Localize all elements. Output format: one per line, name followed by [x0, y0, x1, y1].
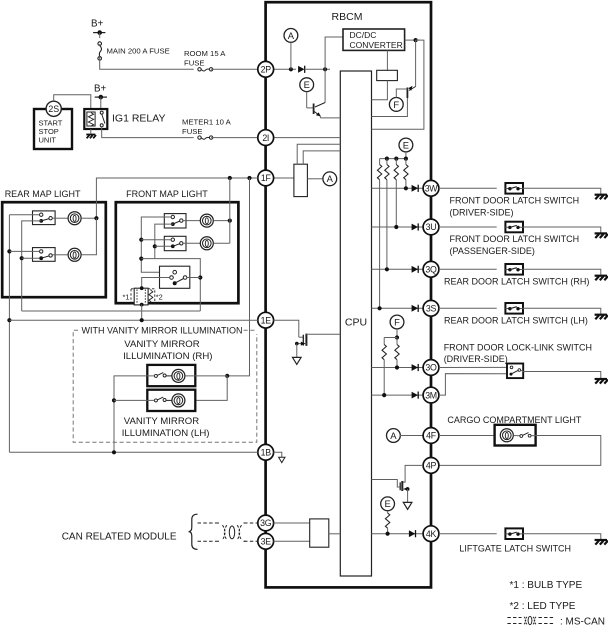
wire pull-up bus: [384, 337, 397, 339]
net label circle F above pull-ups: [390, 315, 404, 329]
svg-text:VANITY MIRROR: VANITY MIRROR: [124, 339, 199, 350]
node 3S pull-up junction: [378, 306, 382, 310]
lamp CARGO COMPARTMENT LIGHT box: [495, 425, 536, 446]
svg-text:REAR DOOR LATCH SWITCH (RH): REAR DOOR LATCH SWITCH (RH): [444, 277, 589, 287]
ground (4K): [595, 540, 608, 545]
REAR MAP LIGHT box: [2, 202, 106, 297]
node V1 switchB: [139, 238, 143, 242]
wire diode to DC/DC junction: [305, 68, 330, 70]
pin 4P: [423, 458, 439, 474]
LED *2 (zigzag): [149, 289, 153, 302]
diode D-3O: [412, 364, 419, 371]
bulb vanity LH: [172, 394, 185, 407]
MOSFET Q3 (cargo driver): [401, 481, 403, 491]
DC/DC CONVERTER box: [343, 29, 405, 50]
pin 4F: [423, 428, 439, 444]
pin 3G: [258, 515, 274, 531]
diode D-3M: [412, 392, 419, 399]
IG1 relay coil: [87, 112, 95, 126]
relay IG1 RELAY box: [84, 109, 107, 129]
svg-text:ILLUMINATION (RH): ILLUMINATION (RH): [123, 351, 212, 362]
wire 3U to switch: [439, 226, 497, 228]
pin 1F: [258, 170, 274, 186]
resistor R6: [396, 338, 398, 345]
wire cargo light to 4P return: [439, 436, 601, 466]
resistor R3 of pull-up bank: [395, 159, 397, 165]
wire 1E to MOSFET Q4 gate: [274, 320, 299, 337]
pin 3U: [423, 219, 439, 235]
node lamp return on 1E rail: [140, 318, 144, 322]
wire rail1 to rear switch 1: [9, 214, 39, 216]
svg-text:1F: 1F: [261, 173, 272, 183]
wire 1E rail: [9, 319, 257, 321]
RBCM module box: [266, 2, 431, 587]
wire switch to ground (3U): [523, 227, 601, 233]
svg-text:3W: 3W: [425, 184, 439, 194]
wire rail2 to front map return: [22, 310, 201, 312]
svg-text:3O: 3O: [425, 363, 437, 373]
wire R2 to 3Q row: [386, 180, 388, 270]
ground (3O): [595, 379, 608, 384]
diode on 2P feed: [298, 66, 305, 73]
dashed box bulb/LED: [131, 289, 155, 304]
net label circle A at 1F: [323, 172, 337, 186]
bulb rear map 1: [52, 217, 68, 219]
node V2 switchB: [153, 244, 157, 248]
wire 3M to lock-link switch: [439, 374, 510, 396]
wire 3G to CAN transceiver: [274, 522, 310, 524]
svg-text:FUSE: FUSE: [182, 127, 203, 136]
svg-text:A: A: [390, 430, 397, 441]
node bus 3: [404, 157, 408, 161]
svg-text:1B: 1B: [261, 448, 272, 458]
resistor R2 of pull-up bank: [386, 159, 388, 165]
pin 4K: [423, 526, 439, 542]
pin 3E: [258, 533, 274, 549]
switch vanity RH: [154, 374, 157, 377]
node bus 1: [385, 157, 389, 161]
pin 3M: [423, 387, 439, 403]
svg-text:FRONT MAP LIGHT: FRONT MAP LIGHT: [126, 189, 208, 199]
wire DC/DC right to rail: [405, 39, 420, 41]
wire 1F to resistor block: [274, 177, 294, 179]
wire CPU to pin 4K: [372, 533, 424, 535]
switch FRONT DOOR LATCH SWITCH: [505, 222, 523, 233]
ground (3S): [595, 315, 608, 320]
wire bulbB to riser: [214, 242, 230, 244]
svg-text:FRONT DOOR LATCH SWITCH: FRONT DOOR LATCH SWITCH: [450, 196, 580, 206]
svg-text:ROOM 15 A: ROOM 15 A: [184, 49, 226, 58]
switch LIFTGATE LATCH SWITCH: [505, 528, 523, 539]
pin 3S: [423, 300, 439, 316]
pin 1B: [258, 444, 274, 460]
diode D-4K: [409, 530, 416, 537]
connector 2S on START STOP UNIT: [46, 101, 61, 116]
svg-text:CONVERTER: CONVERTER: [350, 40, 403, 50]
wire R3 to 3U row: [395, 180, 397, 227]
svg-text:: MS-CAN: : MS-CAN: [560, 617, 605, 628]
vanity LH box: [147, 390, 195, 411]
svg-text:F: F: [393, 99, 399, 110]
node DC/DC feed: [323, 67, 327, 71]
wire DC/DC output rail down to CPU: [372, 40, 424, 129]
CAN transceiver box: [310, 519, 329, 547]
switch REAR DOOR LATCH SWITCH (RH): [505, 264, 523, 275]
svg-text:*2: *2: [156, 293, 163, 302]
svg-text:REAR MAP LIGHT: REAR MAP LIGHT: [5, 189, 81, 199]
svg-text:(DRIVER-SIDE): (DRIVER-SIDE): [444, 354, 508, 364]
wire LH box return: [114, 399, 154, 401]
dashed box WITH VANITY MIRROR ILLUMINATION: [73, 330, 257, 442]
node A (2P branch): [289, 67, 293, 71]
svg-text:A: A: [288, 30, 295, 41]
svg-text:IG1 RELAY: IG1 RELAY: [112, 113, 166, 125]
switch rear map 1: [33, 211, 56, 225]
svg-text:4P: 4P: [426, 461, 437, 471]
switch vanity LH: [154, 399, 157, 402]
svg-text:LIFTGATE LATCH SWITCH: LIFTGATE LATCH SWITCH: [459, 544, 571, 554]
switch front map B: [164, 236, 186, 250]
node vanity LH return: [112, 398, 116, 402]
svg-text:UNIT: UNIT: [39, 136, 57, 145]
resistor block at 1F: [294, 164, 308, 196]
wire B+ to MAIN fuse: [99, 33, 101, 38]
legend MS-CAN symbol: [507, 618, 521, 624]
Q4 source with arrow: [297, 343, 307, 345]
ground (3Q): [595, 276, 608, 281]
switch in cargo light: [513, 435, 520, 437]
wire rail1 to rear switch 2: [9, 250, 39, 252]
ground under IG1 relay coil: [90, 129, 92, 134]
wire E to resistor bus: [405, 152, 407, 159]
wire rail1 riser: [8, 215, 10, 453]
svg-text:3S: 3S: [426, 304, 437, 314]
svg-text:E: E: [384, 498, 390, 509]
wire CPU to pin 3S: [372, 307, 424, 309]
svg-text:MAIN 200 A FUSE: MAIN 200 A FUSE: [107, 47, 170, 56]
svg-text:METER1 10 A: METER1 10 A: [182, 118, 232, 127]
svg-text:WITH VANITY MIRROR ILLUMINATIO: WITH VANITY MIRROR ILLUMINATION: [82, 325, 243, 335]
svg-text:A: A: [327, 173, 334, 184]
net label circle E at 2P transistor: [300, 78, 314, 92]
resistor R4 of pull-up bank: [405, 159, 407, 165]
fuse ROOM 15 A FUSE: [198, 68, 213, 71]
wire vanity LH drop: [185, 376, 227, 401]
ground (3U): [595, 233, 608, 238]
svg-text:ILLUMINATION (LH): ILLUMINATION (LH): [122, 428, 210, 439]
wire bulb1 to 1F drop: [81, 217, 96, 219]
svg-text:*1 : BULB TYPE: *1 : BULB TYPE: [510, 580, 583, 591]
transistor Q1 (E): [306, 92, 308, 108]
svg-text:VANITY MIRROR: VANITY MIRROR: [124, 416, 199, 427]
node V1 return: [139, 257, 143, 261]
svg-text:2P: 2P: [261, 65, 272, 75]
wire 3S to switch: [439, 307, 497, 309]
svg-text:CARGO COMPARTMENT LIGHT: CARGO COMPARTMENT LIGHT: [447, 415, 582, 425]
transformer block under DC/DC: [386, 50, 388, 70]
wire 4K to liftgate switch: [439, 533, 497, 535]
wire METER1 fuse to pin 2I: [211, 137, 258, 139]
IG1 relay switch contacts: [100, 111, 103, 114]
wire CPU to pin 3O: [372, 367, 424, 369]
net label circle A at 2P: [284, 29, 298, 43]
brace for CAN module: [189, 514, 198, 549]
svg-text:3Q: 3Q: [425, 265, 437, 275]
wire 3Q to switch: [439, 268, 497, 270]
switch REAR DOOR LATCH SWITCH (LH): [505, 303, 523, 314]
wire bulb2 to return riser: [81, 218, 96, 255]
switch FRONT DOOR LATCH SWITCH: [505, 183, 523, 194]
bulb in cargo light: [500, 429, 513, 442]
diode D-3W: [412, 185, 419, 192]
wire lamp return to 1E rail: [141, 305, 143, 321]
node F pull-up: [395, 335, 399, 339]
wire CPU to pin 3M: [372, 394, 424, 396]
ground (3W): [595, 195, 608, 200]
fuse MAIN 200 A FUSE: [98, 42, 102, 60]
node lamp top2: [140, 286, 144, 290]
wire CPU to pin 3W: [372, 187, 424, 189]
wire R1 to 3S row: [379, 180, 381, 309]
svg-text:B+: B+: [91, 19, 104, 30]
svg-text:*2 : LED TYPE: *2 : LED TYPE: [510, 601, 576, 612]
svg-text:2I: 2I: [262, 133, 269, 143]
wire MAIN fuse to ROOM fuse: [100, 58, 194, 70]
svg-text:CAN RELATED MODULE: CAN RELATED MODULE: [62, 532, 177, 543]
wire IG1 relay to METER1 fuse: [102, 127, 194, 138]
node 3U pull-up junction: [394, 225, 398, 229]
wire 1B to ground arrow: [274, 452, 282, 457]
node vanity feed on 1F rail: [247, 176, 251, 180]
switch front map A: [164, 214, 186, 228]
diode D-3S: [412, 305, 419, 312]
net label circle F at Q2: [389, 98, 403, 112]
net label circle A at 4F: [387, 429, 401, 443]
switch FRONT DOOR LOCK-LINK SWITCH: [507, 364, 523, 379]
node front bulb A drop on 1F rail: [228, 176, 232, 180]
pin 3O: [423, 360, 439, 376]
node rail1 1E junction: [7, 318, 11, 322]
FRONT MAP LIGHT box: [116, 202, 239, 303]
node vanity on 1B rail: [112, 450, 116, 454]
ground arrow at Q4: [293, 357, 302, 364]
wire 1B rail: [9, 451, 257, 453]
svg-text:3U: 3U: [426, 222, 437, 232]
wire B+ to IG1 relay: [100, 97, 102, 109]
svg-text:2S: 2S: [48, 104, 59, 114]
node rail1 switch2 feed: [7, 249, 11, 253]
resistor bus: [380, 158, 406, 160]
Q4 drain to CPU: [306, 333, 340, 335]
wire 2P to junction: [274, 68, 297, 70]
wire lock-link switch to ground: [521, 370, 524, 371]
node rail2 switch2: [20, 256, 24, 260]
node DC/DC output: [414, 38, 418, 42]
wire 2S to IG1 relay coil: [54, 95, 91, 109]
svg-text:FRONT DOOR LOCK-LINK SWITCH: FRONT DOOR LOCK-LINK SWITCH: [444, 343, 592, 353]
Q3 source with arrow: [403, 488, 408, 490]
wire 1F rail to map lights: [96, 178, 257, 218]
svg-text:DC/DC: DC/DC: [350, 30, 377, 40]
svg-text:F: F: [394, 316, 400, 327]
switch rear map 2: [33, 248, 56, 262]
wire rail2 from rear switch 1: [22, 221, 42, 311]
wire big switch left-mid to lamps: [142, 278, 170, 289]
pin 2P: [258, 61, 274, 77]
resistor R1 of pull-up bank: [379, 159, 381, 165]
wire liftgate switch to ground: [523, 534, 601, 540]
bulb front map A: [183, 220, 200, 222]
node vanity LH branch: [225, 374, 229, 378]
wire 2I to CPU: [274, 137, 341, 139]
wire 3E to CAN transceiver: [274, 540, 310, 542]
pin 3W: [423, 180, 439, 196]
svg-text:E: E: [304, 79, 310, 90]
bulb vanity RH: [172, 369, 185, 382]
wire V2 feed: [155, 224, 173, 259]
svg-text:1E: 1E: [261, 315, 272, 325]
ground arrow at Q3: [403, 502, 412, 509]
switch front map main (3-position): [160, 271, 173, 273]
node bulb return 1: [94, 216, 98, 220]
node 3M pull-up junction: [382, 393, 386, 397]
wire 4F to cargo light: [439, 435, 495, 437]
svg-text:(PASSENGER-SIDE): (PASSENGER-SIDE): [450, 246, 535, 256]
wire 4P to MOSFET Q3: [403, 465, 424, 482]
node 3W pull-up junction: [404, 186, 408, 190]
bulb rear map 2: [52, 254, 68, 256]
net label circle E at 4K resistor: [381, 497, 395, 511]
svg-text:4K: 4K: [426, 529, 437, 539]
svg-text:B+: B+: [94, 84, 107, 95]
wire ROOM fuse to pin 2P: [211, 68, 258, 70]
wire V2 to switch B dot: [155, 245, 171, 247]
wire 1F drop riser: [229, 178, 231, 243]
node big switch output: [198, 275, 202, 279]
bulb *1 (bulb type): [134, 288, 148, 305]
wire transformer to CPU: [372, 81, 388, 100]
svg-text:FUSE: FUSE: [184, 59, 205, 68]
wire junction to DC/DC converter: [325, 37, 343, 69]
pin 2I: [258, 130, 274, 146]
wire V1 to switch B: [141, 239, 171, 241]
diode D-3Q: [412, 266, 419, 273]
wire bulbA to 1F drop: [214, 220, 230, 222]
pin 1E: [258, 312, 274, 328]
svg-text:(DRIVER-SIDE): (DRIVER-SIDE): [450, 207, 514, 217]
wire CPU to pin 3U: [372, 226, 424, 228]
fuse METER1 10 A: [198, 136, 213, 139]
node bus 2: [394, 157, 398, 161]
diode D-3U: [412, 223, 419, 230]
wire block stub 1 to CPU: [297, 144, 340, 164]
svg-text:3G: 3G: [260, 518, 272, 528]
svg-text:CPU: CPU: [345, 317, 367, 329]
wire switch to ground (3S): [523, 308, 601, 314]
wire front V1 feed: [141, 217, 171, 272]
CPU box U1: [340, 71, 371, 576]
wire CPU to Q3 gate: [372, 480, 401, 488]
svg-text:3M: 3M: [425, 390, 437, 400]
svg-text:FRONT DOOR LATCH SWITCH: FRONT DOOR LATCH SWITCH: [450, 234, 580, 244]
svg-text:E: E: [403, 139, 409, 150]
MOSFET Q4 (1E): [302, 335, 304, 346]
wire CPU to pin 3Q: [372, 268, 424, 270]
ground arrow at 1B: [279, 457, 285, 462]
twisted pair MS-CAN to 3G/3E: [198, 522, 217, 524]
wire switch to ground (3W): [523, 188, 601, 194]
wire F to Q2 base: [396, 89, 407, 98]
svg-text:RBCM: RBCM: [332, 11, 363, 23]
svg-text:3E: 3E: [261, 537, 272, 547]
wire RH box to branch: [185, 375, 227, 377]
node 3O pull-up junction: [395, 365, 399, 369]
wire vanity return: [114, 376, 154, 452]
resistor R7: [387, 511, 389, 513]
wire A to pin 4F: [400, 435, 423, 437]
wire big switch right to junction: [187, 277, 200, 279]
wire rail2 to rear switch 2: [22, 257, 40, 259]
node lamp bottom: [140, 303, 144, 307]
node 4K pull-up junction: [386, 532, 390, 536]
wire 3W to switch: [439, 187, 497, 189]
resistor R5: [383, 338, 385, 345]
net label circle E above resistor bank: [399, 138, 413, 152]
wire block stub 2 to CPU: [303, 151, 340, 164]
wire vanity feed from 1F rail: [227, 178, 249, 376]
wire CAN transceiver to CPU: [329, 533, 341, 535]
svg-text:4F: 4F: [426, 431, 437, 441]
svg-text:REAR DOOR LATCH SWITCH (LH): REAR DOOR LATCH SWITCH (LH): [444, 316, 588, 326]
wire resistor block to A: [307, 178, 323, 180]
transistor Q2 (F): [415, 40, 417, 86]
svg-text:*1: *1: [123, 293, 130, 302]
pin 3Q: [423, 261, 439, 277]
wire switch to ground (3Q): [523, 269, 601, 275]
vanity RH box: [147, 365, 195, 386]
node 3Q pull-up junction: [385, 267, 389, 271]
wire 3O to lock-link switch: [439, 366, 510, 368]
wire R4 to 3W row: [405, 180, 407, 189]
bulb front map B: [183, 242, 200, 244]
wire return to big switch: [141, 259, 200, 311]
START STOP UNIT box: [34, 109, 72, 149]
wire F to pull-up pair: [396, 329, 398, 338]
